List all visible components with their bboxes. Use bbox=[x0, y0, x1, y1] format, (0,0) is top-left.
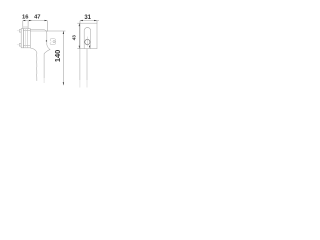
svg-text:47: 47 bbox=[34, 15, 40, 21]
svg-text:16: 16 bbox=[22, 15, 29, 21]
svg-text:43: 43 bbox=[72, 35, 78, 41]
svg-text:140: 140 bbox=[53, 50, 62, 63]
svg-text:31: 31 bbox=[84, 15, 91, 21]
